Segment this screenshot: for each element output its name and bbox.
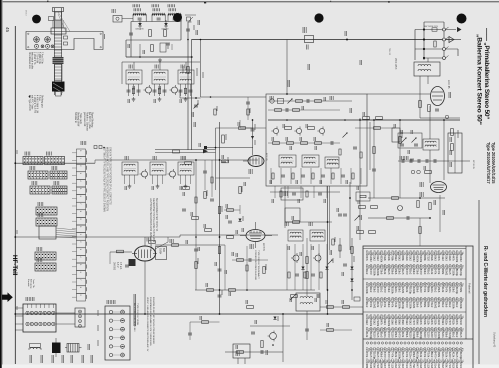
svg-text:470: 470 (434, 353, 438, 358)
svg-text:22n: 22n (430, 288, 434, 293)
svg-text:12k: 12k (383, 257, 387, 262)
svg-text:100p: 100p (455, 270, 459, 276)
svg-text:330k: 330k (412, 288, 416, 294)
svg-text:1k2: 1k2 (372, 321, 376, 326)
svg-text:470: 470 (376, 288, 380, 293)
svg-text:10k: 10k (401, 333, 405, 338)
svg-text:68k: 68k (423, 303, 427, 308)
svg-text:330k: 330k (365, 288, 369, 294)
svg-text:12k: 12k (426, 321, 430, 326)
svg-text:10k: 10k (437, 303, 441, 308)
svg-text:47k: 47k (419, 321, 423, 326)
svg-text:47k: 47k (365, 353, 369, 358)
svg-text:100p: 100p (459, 270, 463, 276)
svg-text:100p: 100p (423, 365, 427, 368)
svg-text:470: 470 (383, 288, 387, 293)
svg-text:3k3: 3k3 (444, 257, 448, 262)
svg-text:68k: 68k (459, 288, 463, 293)
svg-text:68k: 68k (426, 303, 430, 308)
svg-text:12k: 12k (455, 365, 459, 368)
svg-text:330k: 330k (452, 270, 456, 276)
svg-text:5k6: 5k6 (380, 353, 384, 358)
svg-text:45919: 45919 (25, 10, 27, 16)
svg-text:470: 470 (387, 333, 391, 338)
svg-text:1k2: 1k2 (380, 288, 384, 293)
svg-text:6P 30-35: 6P 30-35 (472, 160, 474, 170)
svg-text:220: 220 (423, 333, 427, 338)
svg-text:12k: 12k (430, 365, 434, 368)
svg-text:OA6 10W: OA6 10W (135, 28, 144, 31)
svg-text:47k: 47k (455, 321, 459, 326)
svg-text:Stellung gez.: Stellung gez. (41, 95, 44, 109)
svg-text:470: 470 (369, 270, 373, 275)
svg-text:5k6: 5k6 (398, 321, 402, 326)
svg-text:1n5: 1n5 (459, 321, 463, 326)
svg-text:330k: 330k (376, 365, 380, 368)
svg-text:470: 470 (448, 321, 452, 326)
svg-text:220: 220 (390, 333, 394, 338)
svg-text:1k2: 1k2 (430, 303, 434, 308)
svg-text:47k: 47k (390, 353, 394, 358)
svg-text:Folienteil: Folienteil (467, 283, 471, 294)
svg-text:47k: 47k (405, 353, 409, 358)
svg-text:5k6: 5k6 (390, 321, 394, 326)
svg-text:2M2: 2M2 (459, 257, 463, 263)
svg-text:100p: 100p (401, 303, 405, 309)
svg-text:5k6: 5k6 (416, 270, 420, 275)
svg-text:Type 20100A/UG/14/15: Type 20100A/UG/14/15 (491, 142, 496, 184)
svg-text:470: 470 (412, 321, 416, 326)
svg-text:12k: 12k (437, 365, 441, 368)
svg-text:22n: 22n (448, 288, 452, 293)
svg-text:5k6: 5k6 (444, 333, 448, 338)
svg-text:3k3: 3k3 (387, 288, 391, 293)
svg-text:47k: 47k (383, 365, 387, 368)
svg-text:5k6: 5k6 (405, 333, 409, 338)
svg-text:10k: 10k (405, 288, 409, 293)
svg-text:SETTING AT TYPE 20100/7 ONLY I: SETTING AT TYPE 20100/7 ONLY IN TYPE 201… (103, 147, 106, 212)
svg-text:220: 220 (426, 333, 430, 338)
svg-text:47k: 47k (390, 303, 394, 308)
svg-text:100p: 100p (369, 333, 373, 339)
svg-text:1k2: 1k2 (455, 333, 459, 338)
svg-text:1n5: 1n5 (376, 353, 380, 358)
svg-text:3k3: 3k3 (423, 270, 427, 275)
svg-text:47k: 47k (383, 303, 387, 308)
svg-text:R- und C-Werte der gedruckten: R- und C-Werte der gedruckten (482, 246, 488, 317)
svg-text:220: 220 (441, 365, 445, 368)
svg-text:10k: 10k (369, 365, 373, 368)
svg-text:5k6: 5k6 (412, 353, 416, 358)
svg-text:100p: 100p (408, 288, 412, 294)
svg-text:12k: 12k (430, 270, 434, 275)
svg-text:—— „Primaballerina Stereo 50“: —— „Primaballerina Stereo 50“ (483, 28, 490, 119)
svg-text:470: 470 (419, 270, 423, 275)
svg-text:22n: 22n (448, 257, 452, 262)
svg-text:68k: 68k (380, 365, 384, 368)
svg-text:DM 800: DM 800 (113, 262, 115, 271)
svg-text:5 MW 6 LW: 5 MW 6 LW (38, 52, 40, 65)
svg-text:100p: 100p (419, 333, 423, 339)
svg-text:0.5 mA: 0.5 mA (119, 262, 122, 270)
svg-text:Signal Stellung: Signal Stellung (91, 112, 94, 128)
svg-text:3k3: 3k3 (383, 321, 387, 326)
svg-text:1n5: 1n5 (434, 365, 438, 368)
svg-text:12k: 12k (394, 303, 398, 308)
svg-text:47k: 47k (387, 365, 391, 368)
svg-text:Type 20100A/U/7/16/17: Type 20100A/U/7/16/17 (486, 142, 491, 184)
svg-text:1n5: 1n5 (376, 333, 380, 338)
svg-text:47k: 47k (423, 353, 427, 358)
svg-text:1n5: 1n5 (437, 321, 441, 326)
svg-text:1k2: 1k2 (452, 333, 456, 338)
svg-text:2M2: 2M2 (369, 257, 373, 263)
svg-text:ONLY IN TYPE 20100/7 POSITION: ONLY IN TYPE 20100/7 POSITION OF ALL CON… (109, 147, 112, 205)
svg-text:Belegung: Belegung (30, 279, 32, 289)
svg-text:330k: 330k (408, 303, 412, 309)
svg-text:1k2: 1k2 (434, 288, 438, 293)
svg-text:5k6: 5k6 (416, 288, 420, 293)
svg-text:1n5: 1n5 (380, 333, 384, 338)
svg-text:Taste gedr.: Taste gedr. (79, 113, 82, 125)
svg-text:ECH 81: ECH 81 (262, 243, 264, 252)
svg-text:330k: 330k (387, 321, 391, 327)
svg-text:22n: 22n (441, 333, 445, 338)
svg-text:1k2: 1k2 (369, 288, 373, 293)
svg-text:3k3: 3k3 (412, 270, 416, 275)
svg-text:5k6: 5k6 (390, 270, 394, 275)
svg-text:3 TB 4 KW: 3 TB 4 KW (36, 52, 38, 64)
svg-text:EM84: EM84 (159, 248, 162, 255)
svg-text:12k: 12k (452, 321, 456, 326)
svg-text:47k: 47k (434, 270, 438, 275)
svg-text:BEI GEDRUECKTER TASTE TA: BEI GEDRUECKTER TASTE TA (155, 198, 158, 232)
svg-text:330k: 330k (372, 270, 376, 276)
svg-text:47k: 47k (365, 257, 369, 262)
svg-text:Taste TA: Taste TA (32, 279, 35, 288)
svg-text:12k: 12k (441, 288, 445, 293)
svg-text:22n: 22n (394, 365, 398, 368)
svg-text:1n5: 1n5 (455, 353, 459, 358)
svg-text:47k: 47k (444, 288, 448, 293)
svg-text:470: 470 (405, 270, 409, 275)
svg-text:VDR 105/3: VDR 105/3 (394, 58, 396, 70)
svg-text:1k2: 1k2 (365, 270, 369, 275)
svg-text:4 KW 5 MW 6 LW: 4 KW 5 MW 6 LW (36, 95, 38, 114)
svg-text:1k2: 1k2 (394, 257, 398, 262)
svg-text:5k6: 5k6 (416, 321, 420, 326)
svg-text:„Ballerina Konzert Stereo 50“: „Ballerina Konzert Stereo 50“ (476, 34, 483, 125)
svg-text:220: 220 (408, 333, 412, 338)
svg-text:47k: 47k (408, 365, 412, 368)
svg-text:330k: 330k (376, 321, 380, 327)
svg-text:68k: 68k (437, 353, 441, 358)
svg-text:5k6: 5k6 (416, 333, 420, 338)
svg-text:6-8 V: 6-8 V (116, 262, 118, 268)
svg-text:220: 220 (426, 257, 430, 262)
svg-text:OA6 2W: OA6 2W (161, 28, 169, 31)
svg-text:1k2: 1k2 (376, 257, 380, 262)
svg-text:3k3: 3k3 (387, 303, 391, 308)
svg-text:22n: 22n (383, 333, 387, 338)
svg-text:5k6: 5k6 (394, 270, 398, 275)
svg-text:3k3: 3k3 (434, 257, 438, 262)
svg-text:330k: 330k (398, 303, 402, 309)
svg-text:1k2: 1k2 (365, 303, 369, 308)
svg-text:330k: 330k (390, 288, 394, 294)
svg-text:1n5: 1n5 (401, 270, 405, 275)
svg-text:5k6: 5k6 (380, 270, 384, 275)
svg-text:1n5: 1n5 (401, 353, 405, 358)
svg-text:1n5: 1n5 (369, 353, 373, 358)
svg-text:100p: 100p (448, 333, 452, 339)
svg-text:VERST. UND ANSCHLUSSWERTE BEZO: VERST. UND ANSCHLUSSWERTE BEZOGEN AUF 1V (146, 297, 149, 352)
svg-text:1k2: 1k2 (441, 303, 445, 308)
svg-text:1k2: 1k2 (365, 321, 369, 326)
svg-text:10k: 10k (376, 303, 380, 308)
svg-text:2M2: 2M2 (401, 288, 405, 294)
svg-text:2M2: 2M2 (412, 257, 416, 263)
svg-text:12k: 12k (426, 365, 430, 368)
svg-text:5k6: 5k6 (416, 303, 420, 308)
svg-text:1n5: 1n5 (448, 365, 452, 368)
svg-text:5k6: 5k6 (401, 321, 405, 326)
svg-text:TYPE 20100/17 EINGEBAUT: TYPE 20100/17 EINGEBAUT (257, 250, 260, 279)
svg-text:5k6: 5k6 (394, 333, 398, 338)
svg-text:68k: 68k (390, 257, 394, 262)
svg-text:5k6: 5k6 (444, 303, 448, 308)
svg-text:ECC 85: ECC 85 (447, 80, 450, 89)
svg-text:5k6: 5k6 (412, 365, 416, 368)
svg-text:220: 220 (430, 333, 434, 338)
svg-text:220: 220 (372, 333, 376, 338)
svg-text:5k6: 5k6 (437, 288, 441, 293)
svg-text:1n5: 1n5 (459, 365, 463, 368)
svg-text:10k: 10k (444, 353, 448, 358)
svg-text:bei 220 V~ ohne: bei 220 V~ ohne (88, 112, 90, 130)
svg-text:12k: 12k (434, 321, 438, 326)
svg-text:2M2: 2M2 (412, 303, 416, 309)
svg-text:12k: 12k (430, 257, 434, 262)
svg-text:330k: 330k (412, 333, 416, 339)
svg-text:7 Aus 8 Ein: 7 Aus 8 Ein (41, 52, 44, 64)
svg-text:47k: 47k (369, 303, 373, 308)
svg-text:330k: 330k (437, 333, 441, 339)
svg-text:5k6: 5k6 (372, 365, 376, 368)
svg-text:47k: 47k (452, 257, 456, 262)
svg-text:2M2: 2M2 (434, 303, 438, 309)
svg-text:22n: 22n (380, 303, 384, 308)
svg-text:220: 220 (448, 353, 452, 358)
svg-text:12k: 12k (419, 365, 423, 368)
svg-text:68k: 68k (401, 257, 405, 262)
svg-text:1n5: 1n5 (419, 303, 423, 308)
svg-text:3k3: 3k3 (398, 270, 402, 275)
svg-text:47k: 47k (437, 270, 441, 275)
svg-text:1k2: 1k2 (455, 303, 459, 308)
svg-text:10k: 10k (426, 353, 430, 358)
svg-text:47k: 47k (380, 321, 384, 326)
svg-text:220: 220 (434, 333, 438, 338)
svg-text:12k: 12k (419, 353, 423, 358)
svg-text:330k: 330k (419, 257, 423, 263)
svg-text:47k: 47k (430, 321, 434, 326)
svg-text:330k: 330k (376, 270, 380, 276)
svg-text:1k2: 1k2 (408, 321, 412, 326)
svg-text:330k: 330k (455, 257, 459, 263)
svg-text:1n5: 1n5 (398, 365, 402, 368)
svg-text:1n5: 1n5 (405, 365, 409, 368)
svg-text:1k2: 1k2 (408, 257, 412, 262)
svg-text:FILMSPANNUNG ANGABE IN VOLT GE: FILMSPANNUNG ANGABE IN VOLT GEMESSEN (149, 297, 152, 346)
svg-text:22n: 22n (394, 288, 398, 293)
svg-text:68k: 68k (426, 288, 430, 293)
svg-text:470: 470 (416, 365, 420, 368)
svg-text:1n5: 1n5 (459, 333, 463, 338)
svg-text:3k3: 3k3 (444, 365, 448, 368)
svg-text:330k: 330k (401, 365, 405, 368)
svg-text:1k2: 1k2 (441, 257, 445, 262)
svg-text:22n: 22n (444, 321, 448, 326)
svg-text:TYPE 20100/17 VERB.: TYPE 20100/17 VERB. (136, 303, 138, 326)
svg-text:Schaltung 45: Schaltung 45 (493, 332, 497, 348)
svg-text:STEREO DECODER NUR BEI: STEREO DECODER NUR BEI (254, 250, 256, 280)
svg-text:bei Type 20100: bei Type 20100 (28, 95, 30, 111)
svg-text:LAUTSPRECHER ANSCHLUSS UEBER K: LAUTSPRECHER ANSCHLUSS UEBER KONTAKT (149, 198, 152, 252)
svg-text:12k: 12k (452, 365, 456, 368)
svg-text:45: 45 (5, 27, 10, 33)
svg-text:10k: 10k (423, 321, 427, 326)
svg-text:1k2: 1k2 (394, 321, 398, 326)
svg-text:12k: 12k (365, 333, 369, 338)
svg-text:1k2: 1k2 (372, 257, 376, 262)
svg-text:470: 470 (405, 303, 409, 308)
svg-text:3k3: 3k3 (398, 288, 402, 293)
svg-text:470: 470 (383, 353, 387, 358)
svg-text:1n5: 1n5 (448, 270, 452, 275)
svg-text:1k2: 1k2 (426, 270, 430, 275)
svg-text:800: 800 (162, 248, 165, 253)
svg-text:HF-Teil: HF-Teil (11, 255, 18, 276)
svg-text:3k3: 3k3 (441, 321, 445, 326)
svg-text:330k: 330k (452, 303, 456, 309)
svg-text:1n5: 1n5 (387, 270, 391, 275)
svg-text:1k2: 1k2 (408, 270, 412, 275)
svg-text:2M2: 2M2 (372, 303, 376, 309)
svg-text:470: 470 (387, 353, 391, 358)
svg-text:12k: 12k (390, 365, 394, 368)
svg-text:68k: 68k (365, 365, 369, 368)
svg-text:TEL 20: TEL 20 (388, 48, 390, 56)
svg-text:10k: 10k (387, 257, 391, 262)
svg-text:2M2: 2M2 (444, 270, 448, 276)
svg-text:3k3: 3k3 (372, 288, 376, 293)
svg-text:22n: 22n (405, 257, 409, 262)
svg-text:330k: 330k (416, 257, 420, 263)
svg-text:12k: 12k (452, 353, 456, 358)
svg-text:22n: 22n (408, 353, 412, 358)
svg-text:1k2: 1k2 (448, 303, 452, 308)
svg-text:AN STEREO DECODER BEI: AN STEREO DECODER BEI (133, 303, 136, 332)
svg-text:1k2: 1k2 (398, 257, 402, 262)
svg-text:220: 220 (419, 288, 423, 293)
svg-text:330k: 330k (459, 303, 463, 309)
svg-text:330k: 330k (369, 321, 373, 327)
svg-text:10k: 10k (394, 353, 398, 358)
svg-text:47k: 47k (423, 288, 427, 293)
svg-text:GEZEICHNET IN STELLUNG TASTE U: GEZEICHNET IN STELLUNG TASTE UKW (152, 198, 155, 243)
svg-text:100p: 100p (455, 288, 459, 294)
svg-text:1k2: 1k2 (405, 321, 409, 326)
svg-text:68k: 68k (441, 270, 445, 275)
svg-text:22n: 22n (441, 353, 445, 358)
svg-text:47k: 47k (437, 257, 441, 262)
svg-text:BATTERIE 220V: BATTERIE 220V (424, 25, 439, 28)
svg-text:EINSPIELPUNKT MIT BOSCH PRUEFS: EINSPIELPUNKT MIT BOSCH PRUEFSENDER (152, 297, 154, 345)
svg-text:WIEGAND MODEL AND TYPE 20100/7: WIEGAND MODEL AND TYPE 20100/7 CONTACT P… (106, 147, 109, 211)
svg-text:3k3: 3k3 (452, 288, 456, 293)
svg-text:330k: 330k (380, 257, 384, 263)
svg-text:1k2: 1k2 (430, 353, 434, 358)
svg-text:470: 470 (398, 333, 402, 338)
svg-text:68k: 68k (423, 257, 427, 262)
svg-text:12k: 12k (383, 270, 387, 275)
